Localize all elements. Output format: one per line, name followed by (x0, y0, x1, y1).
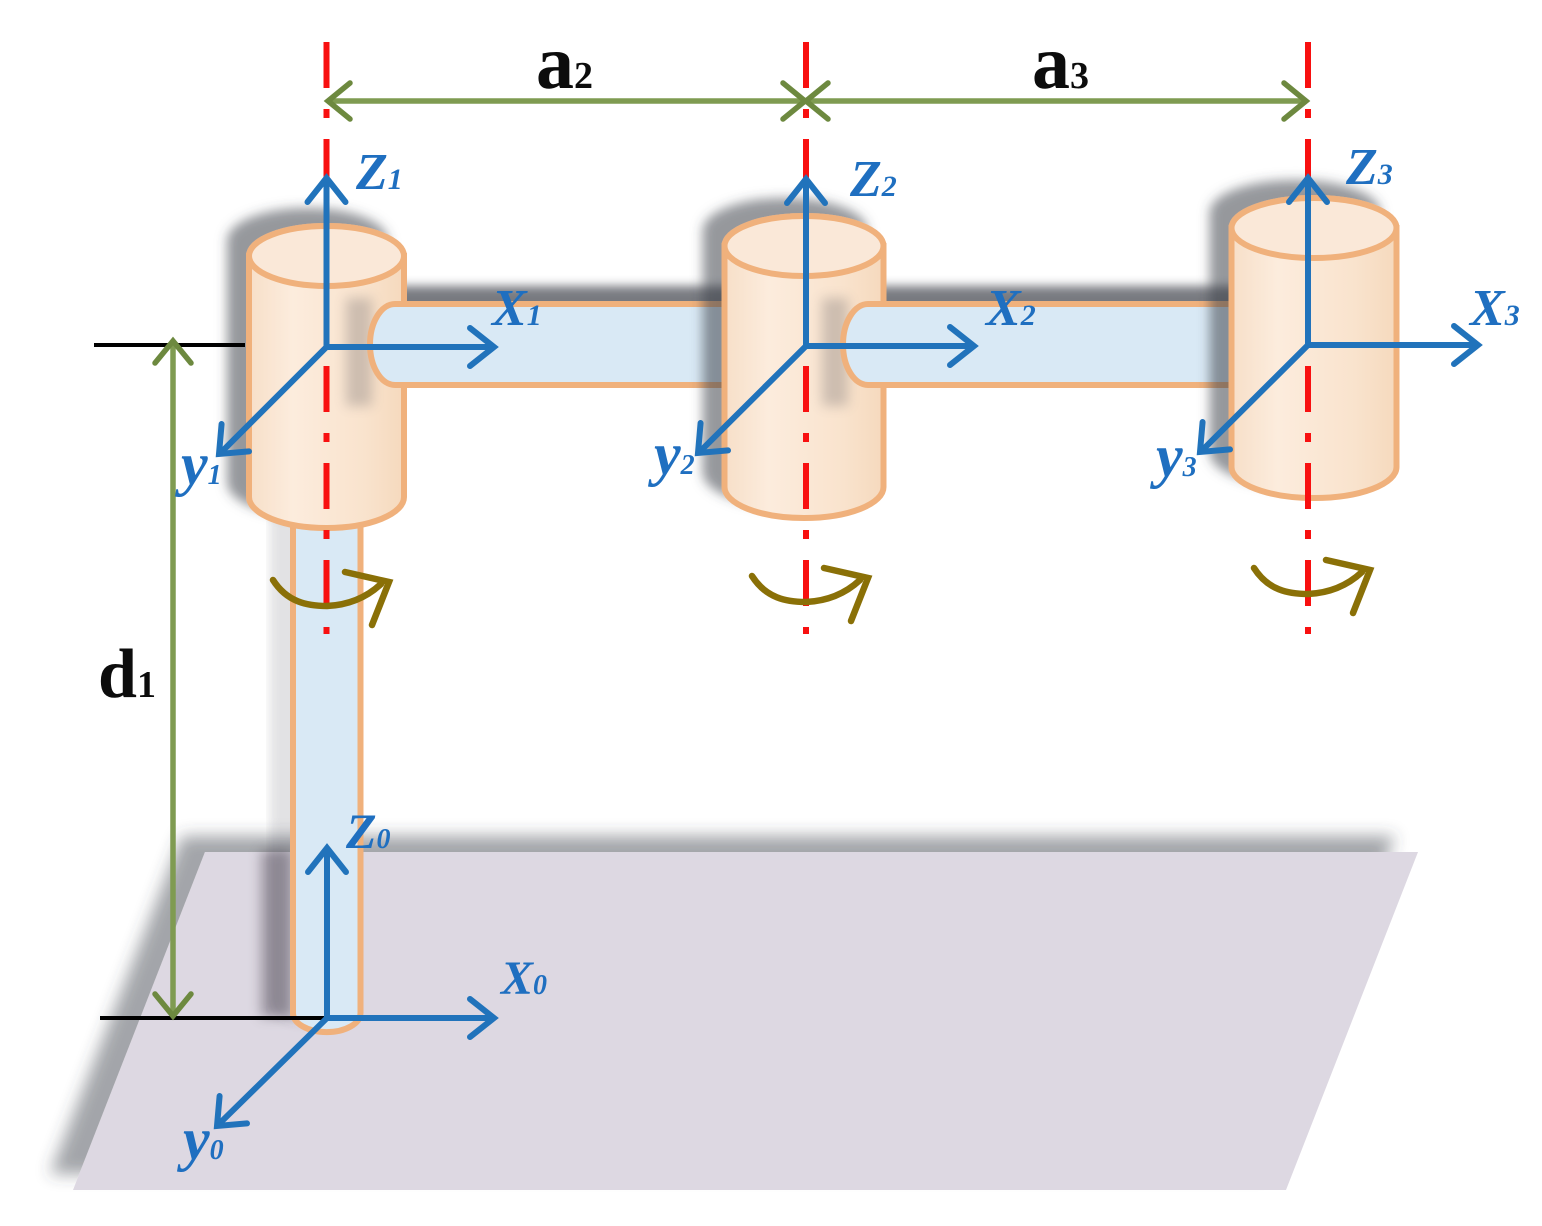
dimension reference tick top (94, 343, 245, 347)
joint 1 cylinder (249, 226, 404, 528)
bar cap shadow on joint 2 cylinder (822, 298, 848, 406)
dimension a2 arrow (328, 83, 805, 119)
frame 3 axes (1200, 178, 1478, 452)
joint 3 cylinder (1232, 198, 1397, 498)
rotation arrow joint 2 (752, 568, 868, 621)
link a2 bar (370, 304, 807, 385)
link a3 bar shadow (821, 286, 1296, 373)
rotation arrow joint 1 (273, 572, 389, 625)
dimension d1 arrow (155, 341, 191, 1016)
frame 2 axes (698, 179, 974, 453)
base column link 0 (293, 500, 361, 1032)
joint 2 cylinder (725, 216, 884, 518)
dimension a3 arrow (806, 83, 1306, 119)
ground plane (73, 852, 1418, 1190)
frame 0 axes (217, 848, 494, 1126)
frame 1 axes (219, 178, 494, 454)
base column shadow on plane (261, 850, 291, 1017)
joint axis 1 red dash-dot (324, 42, 330, 634)
joint axis 2 red dash-dot (803, 42, 809, 634)
link a3 bar (843, 304, 1312, 385)
dimension reference tick bottom (100, 1016, 327, 1020)
rotation arrow joint 3 (1254, 560, 1370, 613)
link a2 bar shadow (348, 286, 791, 373)
joint axis 3 red dash-dot (1305, 42, 1311, 634)
bar cap shadow on joint 1 cylinder (346, 298, 372, 406)
